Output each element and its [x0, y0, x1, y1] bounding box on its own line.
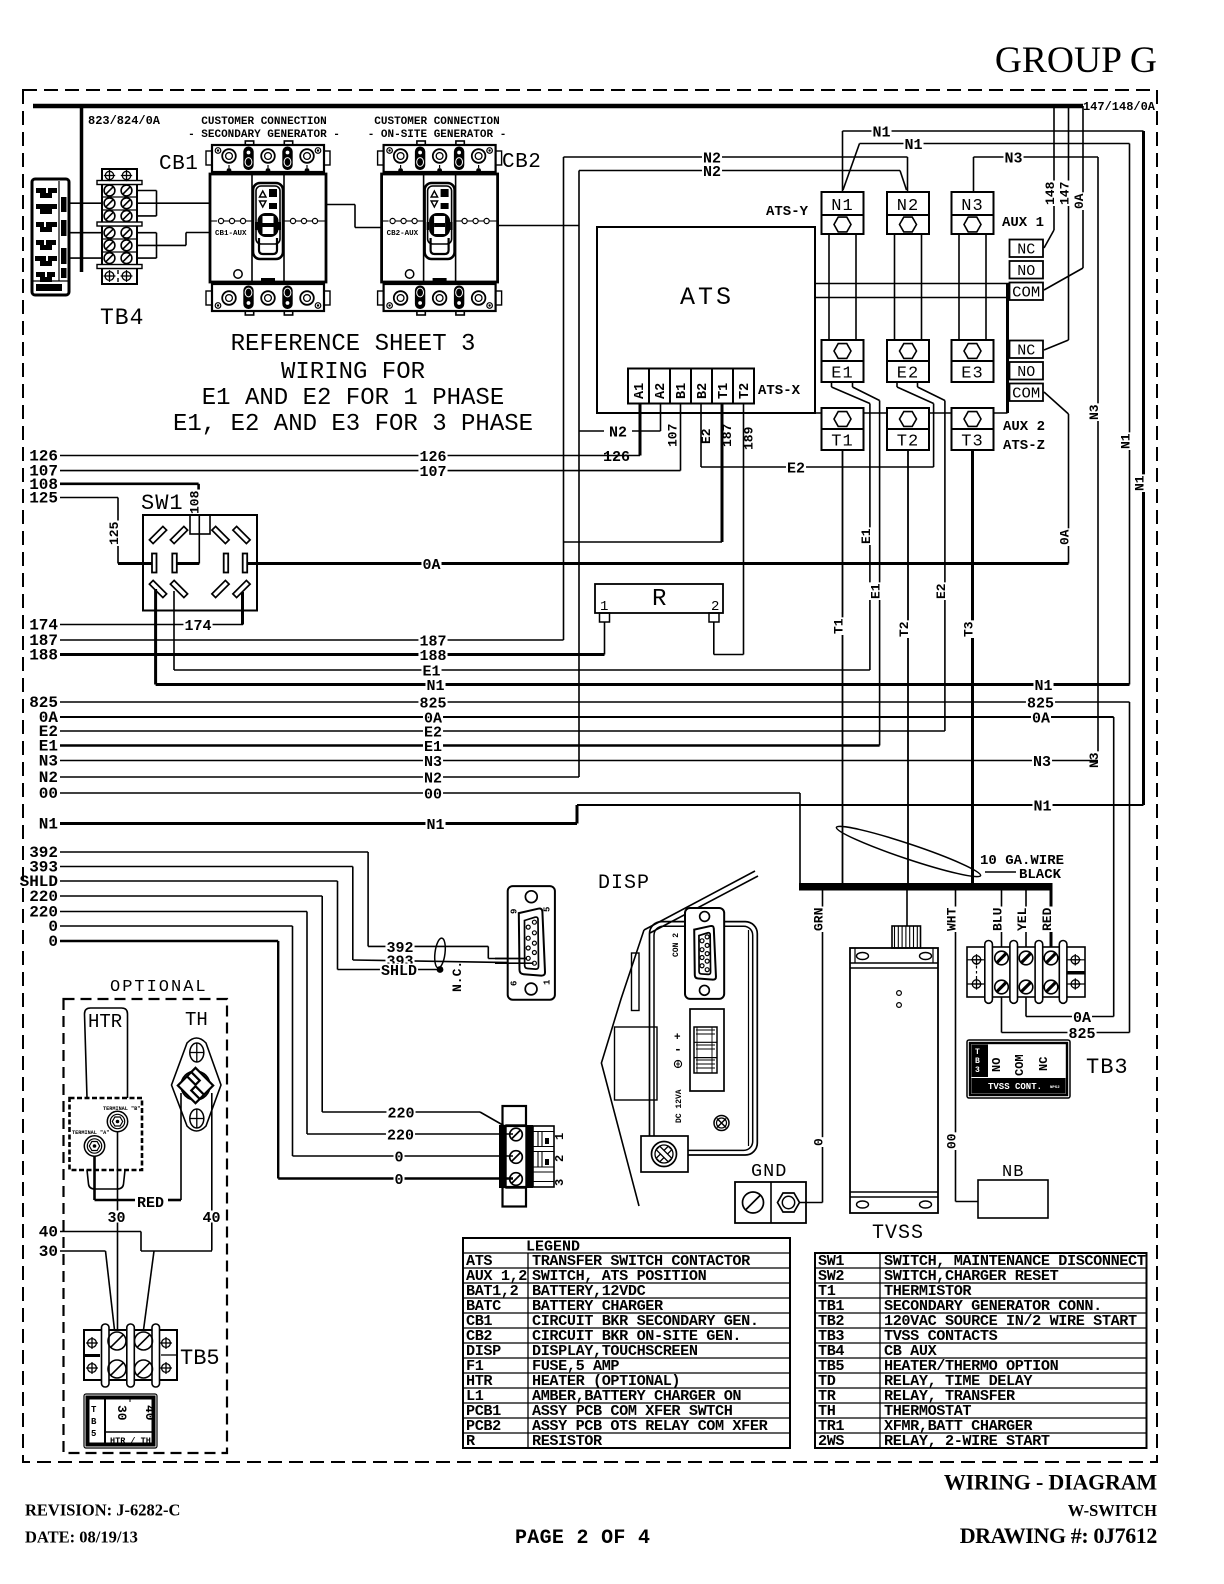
svg-text:0: 0	[812, 1138, 827, 1146]
svg-text:- ON-SITE GENERATOR -: - ON-SITE GENERATOR -	[368, 129, 507, 141]
svg-text:T: T	[91, 1405, 97, 1415]
svg-text:BLU: BLU	[991, 908, 1006, 931]
svg-text:125: 125	[107, 521, 122, 545]
svg-text:BLACK: BLACK	[1019, 867, 1062, 883]
svg-text:00: 00	[39, 785, 58, 803]
svg-text:R: R	[466, 1432, 476, 1450]
svg-text:187: 187	[720, 424, 735, 447]
svg-text:N3: N3	[424, 754, 442, 771]
svg-text:CB1: CB1	[159, 153, 198, 176]
svg-text:B2: B2	[696, 383, 711, 399]
svg-text:E2: E2	[934, 583, 949, 599]
svg-text:RESISTOR: RESISTOR	[532, 1432, 603, 1450]
svg-text:126: 126	[603, 449, 630, 466]
svg-text:NB: NB	[1002, 1163, 1024, 1182]
svg-text:TERMINAL "A": TERMINAL "A"	[72, 1130, 109, 1136]
svg-text:TB5: TB5	[180, 1346, 220, 1371]
svg-text:0A: 0A	[422, 557, 440, 574]
svg-text:2: 2	[553, 1155, 567, 1162]
svg-text:6: 6	[510, 981, 520, 986]
svg-text:N2: N2	[897, 197, 919, 216]
svg-text:CB1-AUX: CB1-AUX	[215, 230, 247, 238]
svg-text:1: 1	[543, 979, 553, 985]
svg-text:823/824/0A: 823/824/0A	[88, 114, 161, 128]
svg-text:T1: T1	[717, 383, 732, 399]
svg-text:147: 147	[1058, 182, 1073, 205]
svg-text:188: 188	[29, 647, 58, 665]
svg-text:N1: N1	[426, 817, 444, 834]
svg-text:WIRING - DIAGRAM: WIRING - DIAGRAM	[944, 1470, 1158, 1495]
svg-text:TB4: TB4	[100, 305, 144, 331]
svg-text:E2: E2	[787, 460, 805, 477]
svg-text:220: 220	[387, 1105, 414, 1122]
svg-text:GND: GND	[751, 1161, 787, 1182]
svg-text:RED: RED	[137, 1195, 164, 1212]
svg-text:A2: A2	[654, 383, 669, 399]
svg-text:SW1: SW1	[141, 491, 184, 516]
svg-text:T: T	[975, 1048, 980, 1057]
svg-text:2WS: 2WS	[818, 1432, 844, 1450]
svg-text:T2: T2	[897, 433, 919, 452]
svg-text:T1: T1	[832, 618, 847, 634]
svg-text:AUX 1: AUX 1	[1002, 215, 1044, 231]
svg-text:NO: NO	[1017, 364, 1035, 381]
svg-text:N2: N2	[703, 164, 721, 181]
svg-text:40: 40	[202, 1210, 220, 1227]
svg-text:NO: NO	[990, 1058, 1004, 1072]
svg-text:ATS-X: ATS-X	[758, 383, 801, 399]
svg-text:TERMINAL "B": TERMINAL "B"	[103, 1106, 140, 1112]
svg-text:TVSS CONT.: TVSS CONT.	[988, 1082, 1042, 1092]
svg-text:T1: T1	[831, 433, 853, 452]
svg-text:DRAWING #: 0J7612: DRAWING #: 0J7612	[960, 1523, 1158, 1548]
svg-text:N1: N1	[872, 124, 890, 141]
svg-text:DATE: 08/19/13: DATE: 08/19/13	[25, 1528, 138, 1547]
svg-text:CB2: CB2	[502, 151, 541, 174]
svg-text:174: 174	[184, 618, 211, 635]
svg-text:T3: T3	[961, 433, 983, 452]
svg-text:REFERENCE SHEET 3: REFERENCE SHEET 3	[231, 331, 476, 358]
svg-text:1: 1	[553, 1133, 567, 1140]
svg-text:CUSTOMER CONNECTION: CUSTOMER CONNECTION	[201, 116, 326, 128]
svg-text:5: 5	[543, 907, 553, 912]
svg-text:R: R	[652, 586, 666, 613]
svg-text:T2: T2	[897, 621, 912, 637]
svg-text:107: 107	[419, 464, 446, 481]
svg-text:E2: E2	[897, 365, 919, 384]
svg-text:9: 9	[510, 909, 520, 914]
svg-text:- SECONDARY GENERATOR -: - SECONDARY GENERATOR -	[188, 129, 340, 141]
svg-text:E1, E2 AND E3 FOR 3 PHASE: E1, E2 AND E3 FOR 3 PHASE	[173, 411, 533, 438]
svg-text:N1: N1	[1034, 678, 1052, 695]
svg-text:5: 5	[91, 1429, 96, 1439]
svg-text:N3: N3	[1004, 150, 1022, 167]
svg-text:REVISION: J-6282-C: REVISION: J-6282-C	[25, 1501, 180, 1520]
svg-text:30: 30	[114, 1405, 129, 1421]
svg-text:TVSS: TVSS	[872, 1222, 924, 1245]
svg-text:189: 189	[742, 426, 757, 450]
svg-text:3: 3	[975, 1066, 980, 1075]
svg-text:E2: E2	[699, 428, 714, 444]
svg-text:NO: NO	[1017, 263, 1035, 280]
svg-text:AUX 2: AUX 2	[1003, 419, 1045, 435]
svg-text:00: 00	[945, 1133, 960, 1149]
svg-text:N1: N1	[1133, 475, 1148, 491]
svg-text:N3: N3	[961, 197, 983, 216]
svg-text:40: 40	[39, 1224, 58, 1242]
svg-text:N3: N3	[39, 753, 58, 771]
svg-text:CUSTOMER CONNECTION: CUSTOMER CONNECTION	[374, 116, 499, 128]
svg-text:ATS: ATS	[680, 283, 734, 312]
svg-text:DC 12VA: DC 12VA	[675, 1089, 684, 1123]
svg-text:NC: NC	[1017, 343, 1035, 360]
svg-text:N1: N1	[904, 137, 922, 154]
svg-text:188: 188	[419, 648, 446, 665]
svg-text:30: 30	[39, 1243, 58, 1261]
svg-text:E1: E1	[831, 365, 853, 384]
svg-text:GROUP G: GROUP G	[995, 40, 1157, 81]
svg-text:RELAY, 2-WIRE START: RELAY, 2-WIRE START	[884, 1432, 1050, 1450]
svg-text:N2: N2	[609, 424, 627, 441]
svg-text:NC: NC	[1037, 1057, 1051, 1071]
svg-text:0A: 0A	[1072, 193, 1087, 209]
svg-text:CON 2: CON 2	[672, 933, 681, 957]
svg-text:107: 107	[666, 424, 681, 447]
svg-text:147/148/0A: 147/148/0A	[1083, 100, 1156, 114]
svg-text:0: 0	[394, 1149, 403, 1166]
svg-text:N3: N3	[1087, 404, 1102, 420]
svg-text:0A: 0A	[1073, 1010, 1091, 1027]
svg-text:GRN: GRN	[812, 908, 827, 931]
svg-text:HTR / TH: HTR / TH	[110, 1436, 151, 1446]
svg-text:RED: RED	[1040, 907, 1055, 931]
svg-text:E3: E3	[961, 365, 983, 384]
svg-text:PAGE 2 OF 4: PAGE 2 OF 4	[515, 1527, 650, 1550]
svg-text:N.C.: N.C.	[450, 961, 465, 992]
svg-text:0: 0	[394, 1172, 403, 1189]
svg-text:COM: COM	[1013, 1054, 1027, 1076]
svg-text:YEL: YEL	[1015, 907, 1030, 931]
svg-text:CB2-AUX: CB2-AUX	[387, 230, 419, 238]
svg-text:T3: T3	[962, 621, 977, 637]
svg-text:0A: 0A	[1058, 529, 1073, 545]
svg-text:A1: A1	[633, 383, 648, 399]
svg-text:220: 220	[387, 1127, 414, 1144]
svg-text:COM: COM	[1012, 285, 1040, 302]
svg-text:0A: 0A	[1032, 710, 1050, 727]
svg-text:COM: COM	[1012, 386, 1040, 403]
svg-text:ATS-Z: ATS-Z	[1003, 438, 1045, 454]
svg-text:00: 00	[424, 786, 442, 803]
svg-text:B: B	[975, 1057, 980, 1066]
svg-text:30: 30	[107, 1210, 125, 1227]
svg-text:T2: T2	[738, 383, 753, 399]
svg-text:W-SWITCH: W-SWITCH	[1068, 1501, 1157, 1520]
svg-text:WHT: WHT	[945, 907, 960, 931]
svg-text:SHLD: SHLD	[381, 963, 417, 980]
svg-text:N2: N2	[424, 770, 442, 787]
svg-text:N1: N1	[1033, 798, 1051, 815]
svg-text:DISP: DISP	[598, 872, 650, 895]
svg-text:NC: NC	[1017, 242, 1035, 259]
svg-text:E1: E1	[859, 528, 874, 544]
svg-text:OPTIONAL: OPTIONAL	[110, 978, 208, 997]
svg-text:N3: N3	[1033, 754, 1051, 771]
svg-text:3: 3	[553, 1179, 567, 1186]
svg-text:148: 148	[1043, 181, 1058, 205]
svg-text:ATS-Y: ATS-Y	[766, 204, 809, 220]
svg-text:E1 AND E2 FOR 1 PHASE: E1 AND E2 FOR 1 PHASE	[202, 385, 504, 412]
svg-text:-: -	[674, 1042, 682, 1057]
svg-text:0: 0	[48, 933, 58, 951]
svg-text:N1: N1	[831, 197, 853, 216]
svg-text:108: 108	[188, 490, 203, 514]
svg-text:B: B	[91, 1417, 97, 1427]
svg-text:825: 825	[1068, 1026, 1095, 1043]
svg-text:B1: B1	[675, 383, 690, 399]
svg-text:N1: N1	[1119, 433, 1134, 449]
svg-text:N1: N1	[426, 678, 444, 695]
svg-text:E1: E1	[869, 583, 884, 599]
svg-text:N1: N1	[39, 816, 58, 834]
svg-text:125: 125	[29, 490, 58, 508]
svg-text:TH: TH	[185, 1009, 208, 1031]
svg-text:TB3: TB3	[1086, 1055, 1129, 1080]
svg-text:HTR: HTR	[88, 1011, 122, 1033]
svg-text:WIRING FOR: WIRING FOR	[281, 359, 425, 386]
svg-text:40: 40	[142, 1405, 157, 1421]
svg-text:NPS2: NPS2	[1050, 1086, 1060, 1090]
